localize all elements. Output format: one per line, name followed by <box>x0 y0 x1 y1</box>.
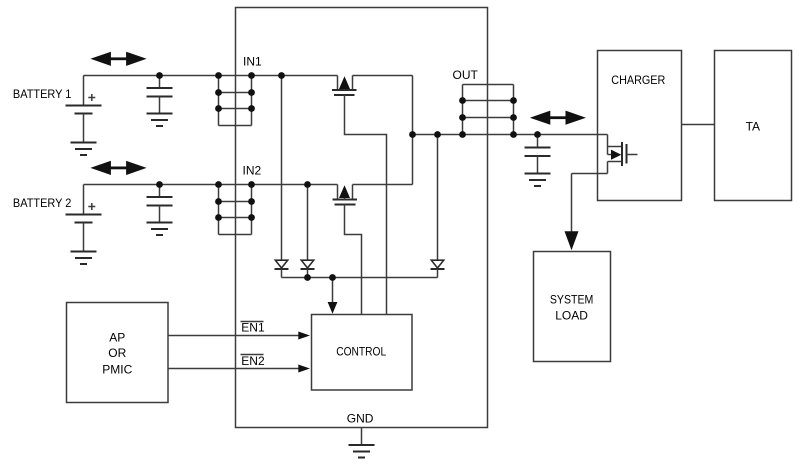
svg-text:GND: GND <box>347 412 374 426</box>
svg-text:IN2: IN2 <box>243 164 262 178</box>
svg-text:OUT: OUT <box>453 68 479 82</box>
svg-text:CONTROL: CONTROL <box>336 345 386 359</box>
svg-text:PMIC: PMIC <box>102 362 132 376</box>
svg-text:TA: TA <box>746 120 760 134</box>
svg-text:BATTERY 2: BATTERY 2 <box>13 196 72 210</box>
svg-text:CHARGER: CHARGER <box>611 73 665 87</box>
svg-text:IN1: IN1 <box>243 55 262 69</box>
svg-text:BATTERY 1: BATTERY 1 <box>13 87 72 101</box>
svg-text:SYSTEM: SYSTEM <box>550 293 594 307</box>
svg-text:EN1: EN1 <box>241 320 265 334</box>
svg-text:AP: AP <box>109 331 125 345</box>
svg-text:OR: OR <box>108 346 126 360</box>
svg-text:LOAD: LOAD <box>555 309 588 323</box>
svg-text:EN2: EN2 <box>241 354 265 368</box>
